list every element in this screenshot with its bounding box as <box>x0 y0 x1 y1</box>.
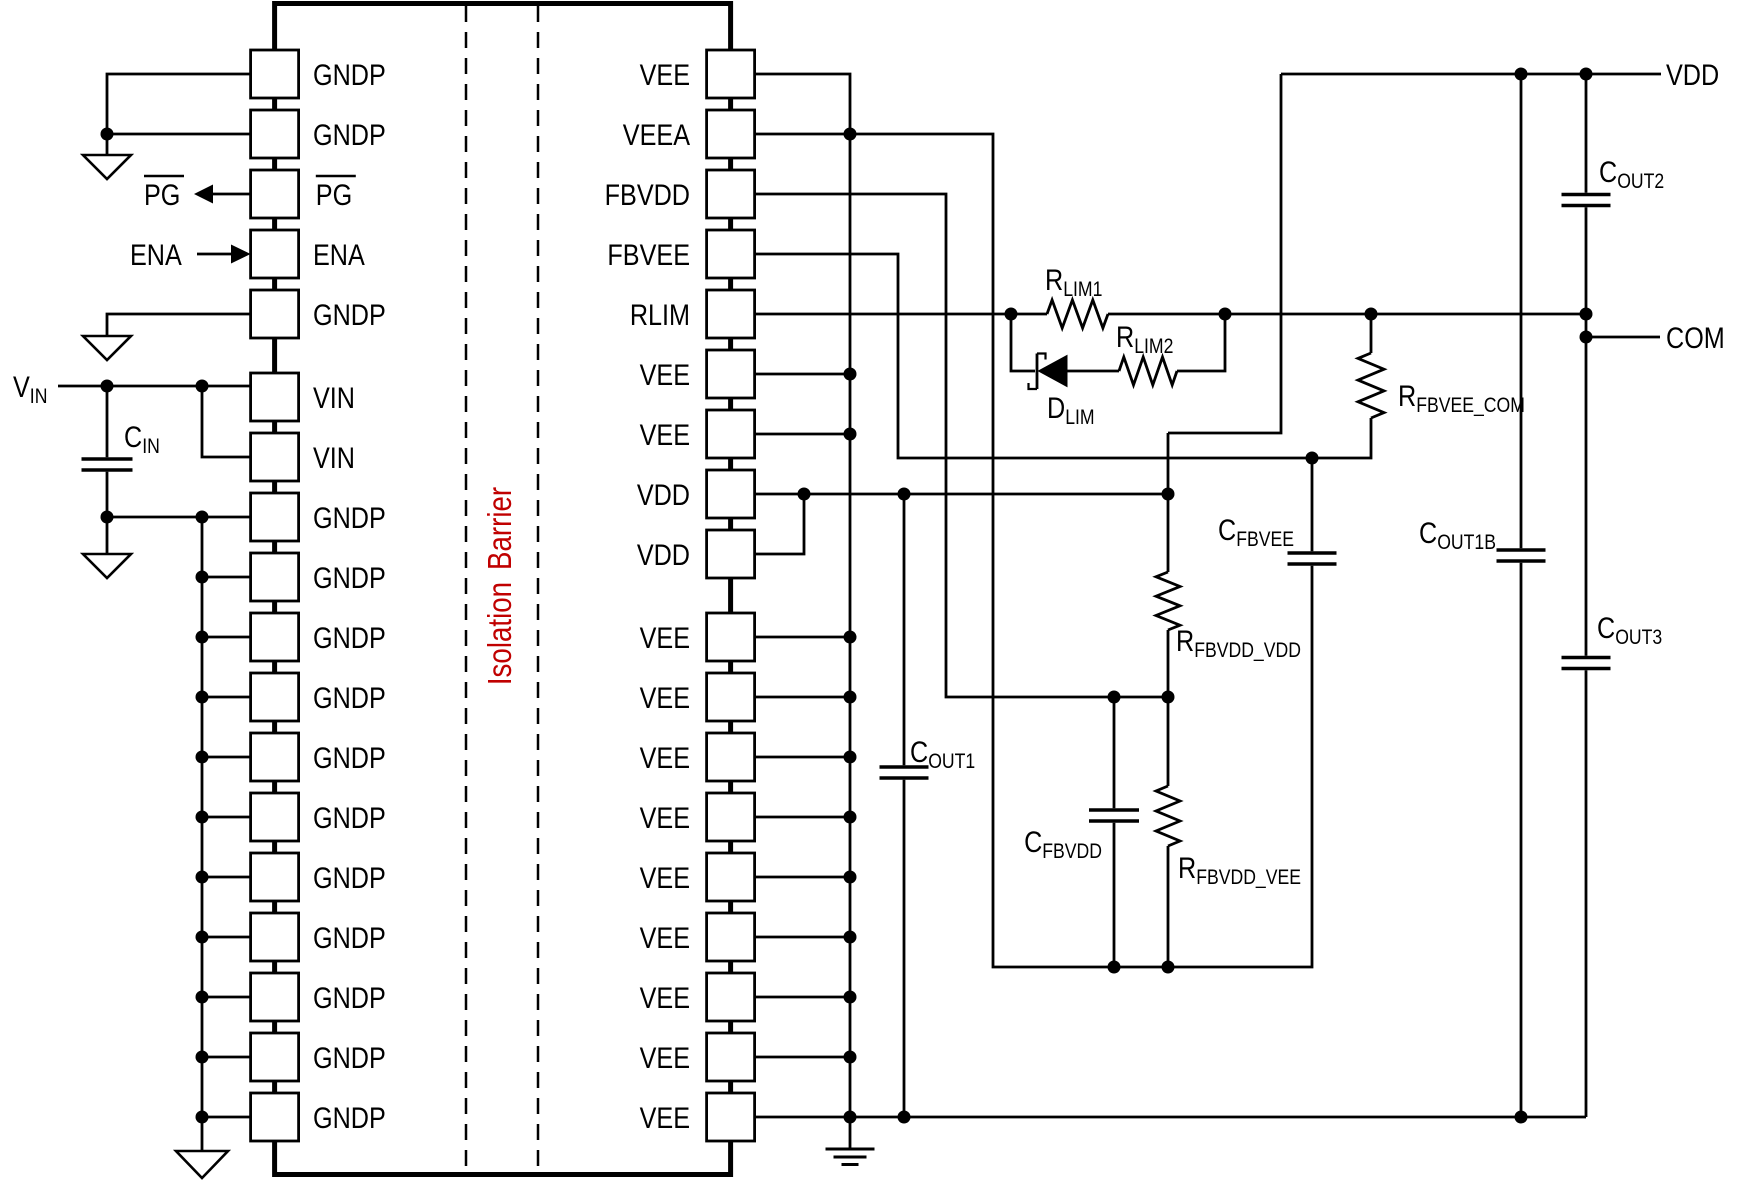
junction: GNDP bus y=877 <box>196 871 209 884</box>
wire: CIN ground stub <box>106 517 109 554</box>
diode DLIM (schottky) <box>1036 354 1039 390</box>
junction: VEE bus / VEEA <box>844 128 857 141</box>
left pin column stub <box>273 156 277 172</box>
junction: GNDP bus y=757 <box>196 751 209 764</box>
svg-text:GNDP: GNDP <box>313 1041 386 1075</box>
DLIM anode triangle <box>1039 356 1068 387</box>
left pin column stub <box>273 659 277 675</box>
junction: GNDP bus / pin18 <box>196 1111 209 1124</box>
wire: GNDP pin at y=1057 <box>202 1056 251 1059</box>
right pin column stub <box>729 396 733 412</box>
wire: FBVEE pin4 <box>755 254 1371 458</box>
wire: VEE pin at y=757 <box>755 756 850 759</box>
junction: GNDP bus y=817 <box>196 811 209 824</box>
pin square right #4 (FBVEE) <box>707 230 755 278</box>
junction: FBVDD rail / resistor node <box>1162 691 1175 704</box>
pin square left #8 (GNDP) <box>251 493 299 541</box>
right pin column stub <box>729 1079 733 1095</box>
wire: VIN pin7 riser <box>202 386 251 457</box>
DLIM schottky cathode hook top <box>1037 354 1046 360</box>
wire: GNDP pin5 to ground <box>107 314 251 336</box>
right pin column stub <box>729 959 733 975</box>
pin square left #15 (GNDP) <box>251 913 299 961</box>
right pin column stub <box>729 216 733 232</box>
pin square right #16 (VEE) <box>707 973 755 1021</box>
junction: GNDP bus y=637 <box>196 631 209 644</box>
wire: GNDP pin8 rail <box>107 516 251 519</box>
svg-text:VEE: VEE <box>640 358 690 392</box>
pin square left #3 (PG) <box>251 170 299 218</box>
junction: COM rail / RFBVEE_COM <box>1365 308 1378 321</box>
svg-text:GNDP: GNDP <box>313 741 386 775</box>
svg-text:Isolation Barrier: Isolation Barrier <box>482 487 519 685</box>
wire: FBVDD pin3 <box>755 194 1168 697</box>
svg-text:VEEA: VEEA <box>623 118 691 152</box>
junction: VIN / CIN <box>101 380 114 393</box>
wire: GNDP pin at y=757 <box>202 756 251 759</box>
junction: GNDP pins 1+2 <box>101 128 114 141</box>
pin square right #8 (VDD) <box>707 470 755 518</box>
capacitor COUT2 <box>1585 74 1588 193</box>
left pin column stub <box>273 1019 277 1035</box>
wire: DLIM to RLIM2 <box>1067 370 1119 373</box>
svg-text:ENA: ENA <box>313 238 365 272</box>
pin square right #17 (VEE) <box>707 1033 755 1081</box>
wire: VEE pin at y=637 <box>755 636 850 639</box>
junction: RLIM / DLIM branch left <box>1005 308 1018 321</box>
pin square left #2 (GNDP) <box>251 110 299 158</box>
left pin column stub <box>273 539 277 555</box>
isolation barrier dashed line right <box>537 6 540 1172</box>
left pin column stub <box>273 779 277 795</box>
pin square left #4 (ENA) <box>251 230 299 278</box>
junction: GNDP bus y=1057 <box>196 1051 209 1064</box>
pin square left #16 (GNDP) <box>251 973 299 1021</box>
right pin column stub (pin 18 to body bottom) <box>729 1139 733 1174</box>
junction: GNDP rail / GNDP bus <box>196 511 209 524</box>
pin square left #1 (GNDP) <box>251 50 299 98</box>
wire: VEE bottom rail <box>755 1116 1586 1119</box>
svg-text:VIN: VIN <box>313 441 355 475</box>
svg-text:GNDP: GNDP <box>313 118 386 152</box>
junction: VEE bus y=374 <box>844 368 857 381</box>
wire: VEE pin at y=877 <box>755 876 850 879</box>
left pin column stub <box>273 96 277 112</box>
junction: COM rail / COUT2 <box>1580 308 1593 321</box>
pin square right #6 (VEE) <box>707 350 755 398</box>
pin square right #9 (VDD) <box>707 530 755 578</box>
capacitor COUT1 <box>903 494 906 765</box>
right pin column stub <box>729 719 733 735</box>
svg-text:VEE: VEE <box>640 418 690 452</box>
PG label overline <box>144 175 184 178</box>
wire: GNDP pin18 <box>202 1116 251 1119</box>
pin square left #17 (GNDP) <box>251 1033 299 1081</box>
right pin column stub <box>729 276 733 292</box>
left pin column stub (body top to pin 1) <box>273 4 277 52</box>
svg-text:GNDP: GNDP <box>313 681 386 715</box>
pin square left #18 (GNDP) <box>251 1093 299 1141</box>
wire: VEE pin at y=997 <box>755 996 850 999</box>
pin square right #13 (VEE) <box>707 793 755 841</box>
pin square left #9 (GNDP) <box>251 553 299 601</box>
wire: DLIM branch left riser <box>1011 314 1035 371</box>
junction: VDD rail / COUT1 <box>898 488 911 501</box>
capacitor CFBVEE <box>1311 458 1314 551</box>
junction: FBVEE rail / CFBVEE <box>1306 452 1319 465</box>
left pin column stub <box>273 479 277 495</box>
svg-text:VEE: VEE <box>640 1041 690 1075</box>
svg-text:VEE: VEE <box>640 861 690 895</box>
wire: GNDP pin at y=577 <box>202 576 251 579</box>
right pin column stub <box>729 96 733 112</box>
ground (chassis) bottom-left <box>176 1151 228 1178</box>
svg-text:ENA: ENA <box>130 238 182 272</box>
pin square right #1 (VEE) <box>707 50 755 98</box>
junction: VIN pins 6+7 <box>196 380 209 393</box>
svg-text:VEE: VEE <box>640 681 690 715</box>
pin square right #3 (FBVDD) <box>707 170 755 218</box>
left pin column stub <box>273 216 277 232</box>
capacitor COUT3 <box>1562 656 1611 659</box>
capacitor CIN <box>106 386 109 457</box>
left pin column stub <box>273 899 277 915</box>
wire: GNDP pin at y=997 <box>202 996 251 999</box>
junction: box bottom / RFBVDD_VEE <box>1162 961 1175 974</box>
junction: VEE bus y=877 <box>844 871 857 884</box>
svg-text:FBVEE: FBVEE <box>607 238 690 272</box>
wire: VEE pin at y=817 <box>755 816 850 819</box>
left pin column stub <box>273 419 277 435</box>
isolation barrier dashed line left <box>465 6 468 1172</box>
ground (chassis) below CIN <box>83 554 131 578</box>
resistor RFBVEE_COM <box>1370 314 1373 353</box>
junction: FBVDD rail / CFBVDD <box>1108 691 1121 704</box>
svg-text:VEE: VEE <box>640 1101 690 1135</box>
svg-text:FBVDD: FBVDD <box>605 178 690 212</box>
junction: VEE bus y=1057 <box>844 1051 857 1064</box>
wire: VEE pin at y=1057 <box>755 1056 850 1059</box>
wire: VEE pin at y=937 <box>755 936 850 939</box>
left pin column stub <box>273 1079 277 1095</box>
pin square right #18 (VEE) <box>707 1093 755 1141</box>
svg-text:GNDP: GNDP <box>313 801 386 835</box>
junction: GNDP bus y=577 <box>196 571 209 584</box>
svg-text:PG: PG <box>144 178 180 212</box>
svg-text:GNDP: GNDP <box>313 1101 386 1135</box>
wire: VEE pin at y=697 <box>755 696 850 699</box>
ground (chassis) top-left <box>83 155 131 179</box>
left pin column stub <box>273 959 277 975</box>
junction: VDD rail / RFBVDD_VDD <box>1162 488 1175 501</box>
svg-text:GNDP: GNDP <box>313 298 386 332</box>
wire: VEE ground stub <box>849 1117 852 1149</box>
resistor RLIM2 <box>1119 357 1177 385</box>
ENA arrowhead <box>231 245 251 264</box>
svg-text:GNDP: GNDP <box>313 58 386 92</box>
pin square left #5 (GNDP) <box>251 290 299 338</box>
resistor RLIM1 <box>1047 300 1108 328</box>
svg-text:GNDP: GNDP <box>313 501 386 535</box>
junction: RLIM2 branch right <box>1219 308 1232 321</box>
wire: VDD top rail <box>1281 73 1661 76</box>
PG arrow wire <box>212 193 251 196</box>
pin square right #15 (VEE) <box>707 913 755 961</box>
right pin column stub <box>729 839 733 855</box>
pin square right #7 (VEE) <box>707 410 755 458</box>
junction: VEE bus y=434 <box>844 428 857 441</box>
svg-text:GNDP: GNDP <box>313 861 386 895</box>
wire: VIN input rail <box>58 385 251 388</box>
resistor RFBVDD_VEE <box>1167 697 1170 786</box>
pin square right #2 (VEEA) <box>707 110 755 158</box>
svg-text:VEE: VEE <box>640 621 690 655</box>
pin square right #10 (VEE) <box>707 613 755 661</box>
ENA arrow wire <box>197 253 233 256</box>
junction: VEE bus y=757 <box>844 751 857 764</box>
junction: GNDP bus y=937 <box>196 931 209 944</box>
svg-text:GNDP: GNDP <box>313 621 386 655</box>
wire: GNDP pin at y=877 <box>202 876 251 879</box>
pin square right #14 (VEE) <box>707 853 755 901</box>
wire: VDD top rail riser <box>1168 74 1281 433</box>
wire: GNDP pin at y=817 <box>202 816 251 819</box>
junction: VEE bus y=637 <box>844 631 857 644</box>
junction: COM stub <box>1580 331 1593 344</box>
right pin column stub <box>729 516 733 532</box>
right pin column stub (body top to pin 1) <box>729 4 733 52</box>
wire: GNDP pin1 to ground <box>107 74 251 155</box>
right pin column stub <box>729 336 733 352</box>
svg-text:VEE: VEE <box>640 921 690 955</box>
DLIM schottky cathode hook bottom <box>1029 383 1038 389</box>
pin square right #11 (VEE) <box>707 673 755 721</box>
wire: VEE pin at y=434 <box>755 433 850 436</box>
pin square right #5 (RLIM) <box>707 290 755 338</box>
ground (earth) below VEE bus <box>826 1148 875 1151</box>
junction: box bottom / CFBVDD <box>1108 961 1121 974</box>
pin square left #13 (GNDP) <box>251 793 299 841</box>
pin square left #7 (VIN) <box>251 433 299 481</box>
svg-text:VEE: VEE <box>640 801 690 835</box>
svg-text:VEE: VEE <box>640 741 690 775</box>
left pin column stub <box>273 336 277 375</box>
junction: VEE bus y=817 <box>844 811 857 824</box>
pin square left #10 (GNDP) <box>251 613 299 661</box>
junction: GNDP bus y=997 <box>196 991 209 1004</box>
svg-text:PG: PG <box>316 178 352 212</box>
left pin column stub <box>273 719 277 735</box>
pin square left #6 (VIN) <box>251 373 299 421</box>
junction: COUT1B / bottom rail <box>1515 1111 1528 1124</box>
junction: GNDP bus y=697 <box>196 691 209 704</box>
svg-text:GNDP: GNDP <box>313 981 386 1015</box>
svg-text:RLIM: RLIM <box>630 298 690 332</box>
right pin column stub <box>729 156 733 172</box>
wire: VEE bus (right of IC) <box>755 74 850 1117</box>
right pin column stub <box>729 456 733 472</box>
right pin column stub <box>729 899 733 915</box>
capacitor COUT1B <box>1520 74 1523 548</box>
right pin column stub <box>729 659 733 675</box>
junction: VDD pins 8+9 <box>798 488 811 501</box>
resistor RFBVDD_VDD <box>1167 433 1170 572</box>
wire: VDD pin9 riser <box>755 494 804 554</box>
svg-text:GNDP: GNDP <box>313 921 386 955</box>
wire: COM stub <box>1586 336 1660 339</box>
PG arrowhead <box>194 185 213 204</box>
svg-text:VEE: VEE <box>640 981 690 1015</box>
svg-text:VIN: VIN <box>313 381 355 415</box>
junction: VEE bus y=997 <box>844 991 857 1004</box>
left pin column stub <box>273 839 277 855</box>
wire: RLIM2 to COM rail riser <box>1177 314 1225 371</box>
junction: COUT1 / bottom rail <box>898 1111 911 1124</box>
wire: VDD pin8 rail <box>755 493 1168 496</box>
svg-text:GNDP: GNDP <box>313 561 386 595</box>
svg-text:VDD: VDD <box>637 538 690 572</box>
left pin column stub (pin 18 to body bottom) <box>273 1139 277 1174</box>
junction: VDD rail / COUT1B <box>1515 68 1528 81</box>
wire: COM column <box>1585 314 1588 656</box>
svg-text:COM: COM <box>1666 321 1725 355</box>
pin square left #11 (GNDP) <box>251 673 299 721</box>
junction: VEE bus / bottom rail <box>844 1111 857 1124</box>
left pin column stub <box>273 276 277 292</box>
pin square left #14 (GNDP) <box>251 853 299 901</box>
wire: RLIM pin5 / COM rail <box>755 313 1047 316</box>
wire: GNDP pin2 to ground node <box>107 133 251 136</box>
wire: COM rail right of RLIM1 <box>1108 313 1586 316</box>
wire: VEE pin at y=374 <box>755 373 850 376</box>
junction: VEE bus y=697 <box>844 691 857 704</box>
right pin column stub <box>729 576 733 615</box>
junction: VEE bus y=937 <box>844 931 857 944</box>
ground (chassis) mid-left <box>83 336 131 360</box>
right pin column stub <box>729 1019 733 1035</box>
junction: CIN bottom / GNDP rail <box>101 511 114 524</box>
wire: GNDP pin at y=697 <box>202 696 251 699</box>
pin square left #12 (GNDP) <box>251 733 299 781</box>
IC body outline U1 <box>275 4 731 1175</box>
wire: VEEA pin2 to feedback box <box>755 134 1312 967</box>
svg-text:VEE: VEE <box>640 58 690 92</box>
capacitor CFBVDD <box>1113 697 1116 808</box>
wire: GNDP pin at y=937 <box>202 936 251 939</box>
pin square right #12 (VEE) <box>707 733 755 781</box>
svg-text:VDD: VDD <box>637 478 690 512</box>
svg-text:VDD: VDD <box>1666 58 1719 92</box>
left pin column stub <box>273 599 277 615</box>
right pin column stub <box>729 779 733 795</box>
wire: GNDP bus (left) <box>201 517 204 1151</box>
junction: VDD rail / COUT2 <box>1580 68 1593 81</box>
wire: GNDP pin at y=637 <box>202 636 251 639</box>
